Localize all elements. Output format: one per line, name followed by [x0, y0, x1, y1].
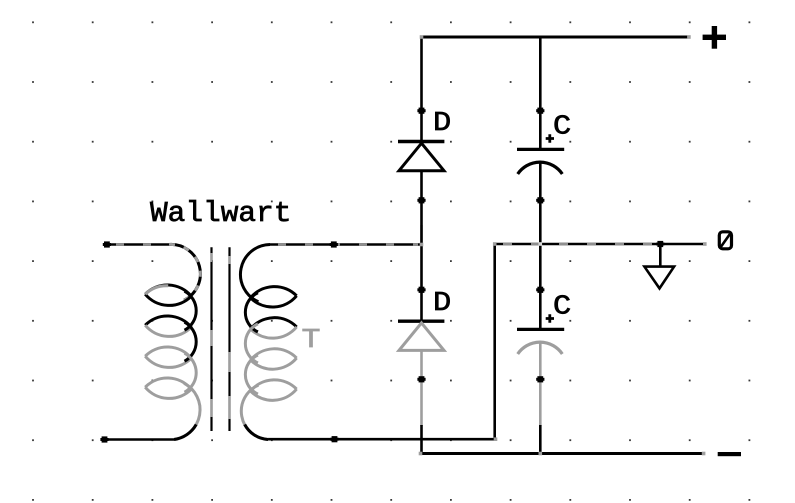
endpoint cap: + rail corner [420, 35, 424, 39]
junction: primary bottom pin [100, 436, 108, 442]
wire: 0 rail [495, 243, 706, 246]
crossover pinch at C chain x 0 rail [539, 242, 543, 246]
capacitor C2 [517, 329, 564, 354]
junction: C2 minus pin [536, 376, 544, 382]
wire: node + to D1 cathode [420, 37, 423, 142]
wire: primary bottom pin [105, 438, 175, 441]
wire: C2 minus down to minus rail [539, 343, 542, 426]
endpoint cap: 0 net bottom corner [494, 437, 498, 441]
wire: minus rail [422, 452, 706, 455]
endpoint cap: + rail end [687, 35, 691, 39]
ground symbol [644, 244, 674, 288]
svg-text:C: C [553, 293, 571, 323]
terminal - [718, 452, 741, 456]
junction: primary top pin [103, 241, 111, 247]
junction: C2 plus pin [536, 287, 544, 293]
junction: ground tap on 0 rail [656, 241, 664, 247]
junction: D2 anode pin [417, 376, 425, 382]
svg-text:Wallwart: Wallwart [150, 197, 292, 230]
endpoint cap: minus rail start [419, 452, 423, 456]
wire: D2 anode down to minus rail [420, 351, 423, 426]
wire: secondary top run to diode node [270, 243, 422, 246]
svg-text:D: D [433, 289, 451, 319]
endpoint cap: minus rail end [702, 452, 706, 456]
wire: D1 anode to D2 cathode [420, 171, 423, 321]
wire: + top rail [422, 36, 688, 39]
wire: node + to C1 plus [539, 37, 542, 149]
transformer core line left [210, 247, 212, 431]
junction: D1 cathode pin [417, 108, 425, 114]
junction: secondary top pin [330, 241, 338, 247]
transformer core line right [228, 247, 230, 431]
capacitor C1 [517, 149, 564, 174]
plus mark C1 [546, 134, 554, 142]
wire: secondary bottom run to corner [268, 438, 495, 441]
diode D2 [398, 321, 444, 350]
endpoint cap: 0 rail corner [493, 242, 497, 246]
endpoint cap: node at D chain and secondary wire [420, 243, 424, 247]
junction: C1 minus pin [536, 197, 544, 203]
transformer T primary winding [145, 244, 200, 439]
junction: D2 cathode pin [417, 287, 425, 293]
plus mark C2 [546, 314, 554, 322]
svg-text:T: T [302, 326, 321, 356]
svg-text:D: D [433, 109, 451, 139]
junction: C1 plus pin [536, 108, 544, 114]
endpoint cap: minus rail C tee [539, 452, 543, 456]
wire: C1 minus to C2 plus (crosses 0 rail) [539, 163, 542, 330]
terminal 0 label [719, 232, 731, 249]
transformer T secondary winding [240, 245, 296, 440]
svg-text:C: C [553, 113, 571, 143]
endpoint cap: 0 rail end [703, 242, 707, 246]
junction: secondary bottom pin [330, 436, 338, 442]
wire: 0-net vertical [493, 244, 496, 439]
junction: D1 anode pin [417, 197, 425, 203]
terminal + [703, 26, 726, 49]
wire: primary top pin [107, 243, 172, 246]
diode D1 [398, 142, 444, 171]
